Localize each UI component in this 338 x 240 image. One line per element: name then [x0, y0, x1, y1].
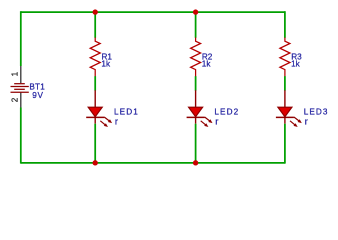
pin 1 lead	[20, 66, 22, 83]
svg-text:2: 2	[11, 97, 20, 102]
LED3 anode lead	[284, 90, 286, 107]
wire branch2 top	[195, 12, 197, 38]
LED3 cathode lead	[284, 117, 286, 123]
LED3 cathode bar	[276, 116, 294, 118]
LED3 triangle	[278, 107, 292, 117]
plate short 1	[14, 83, 25, 85]
junction bottom 2	[193, 160, 198, 165]
junction top 2	[193, 9, 198, 14]
plate short 2	[14, 88, 25, 90]
junction top 1	[93, 9, 98, 14]
wire bottom rail	[21, 162, 285, 164]
wire left rail upper	[20, 11, 22, 66]
wire branch2 mid	[195, 76, 197, 90]
wire branch1 bottom	[94, 124, 96, 163]
svg-text:r: r	[215, 117, 218, 128]
svg-text:LED3: LED3	[304, 107, 329, 116]
arrow 2	[201, 121, 206, 125]
wire left rail lower	[20, 108, 22, 164]
svg-text:LED1: LED1	[114, 107, 139, 116]
branch 3	[276, 11, 329, 163]
arrow 1	[294, 117, 300, 121]
arrow 2	[290, 121, 295, 125]
wire top rail	[21, 11, 285, 13]
battery BT1	[11, 66, 46, 108]
LED1 triangle	[88, 107, 102, 117]
LED2 cathode bar	[187, 116, 205, 118]
wire branch1 mid	[94, 76, 96, 90]
svg-text:1k: 1k	[202, 60, 212, 69]
LED1	[86, 90, 112, 127]
branch 1	[86, 9, 139, 165]
pin 2 lead	[20, 93, 22, 108]
plate long 1	[11, 86, 29, 88]
svg-text:1: 1	[11, 71, 20, 76]
wire branch3 top	[284, 11, 286, 38]
LED1 cathode lead	[94, 117, 96, 123]
arrow 1	[104, 117, 110, 121]
junction bottom 1	[93, 160, 98, 165]
LED2 anode lead	[195, 90, 197, 107]
svg-text:LED2: LED2	[214, 107, 239, 116]
resistor R2	[191, 38, 201, 77]
plate long 2	[11, 91, 29, 93]
svg-text:r: r	[115, 117, 118, 128]
resistor R1	[90, 38, 100, 77]
wire branch3 mid	[284, 76, 286, 90]
LED1 anode lead	[94, 90, 96, 107]
branch 2	[187, 9, 240, 165]
arrow 2	[100, 121, 105, 125]
svg-text:9V: 9V	[32, 91, 43, 100]
svg-text:1k: 1k	[101, 60, 111, 69]
LED2 cathode lead	[195, 117, 197, 123]
LED2	[187, 90, 213, 127]
resistor R3	[280, 38, 290, 77]
svg-text:1k: 1k	[291, 60, 301, 69]
wire branch1 top	[94, 12, 96, 38]
wire branch2 bottom	[195, 124, 197, 163]
svg-text:r: r	[305, 117, 308, 128]
LED2 triangle	[189, 107, 203, 117]
LED1 cathode bar	[86, 116, 104, 118]
LED3	[276, 90, 302, 127]
wire branch3 bottom	[284, 124, 286, 164]
arrow 1	[205, 117, 211, 121]
svg-text:BT1: BT1	[29, 82, 45, 91]
